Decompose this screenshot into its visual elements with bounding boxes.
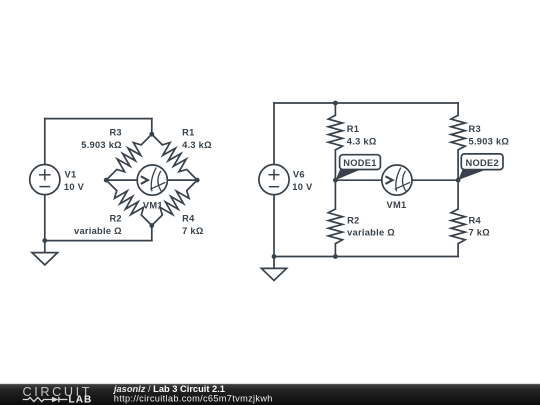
svg-text:NODE2: NODE2 — [466, 158, 499, 168]
wire right branch R3 to NODE2 — [457, 150, 459, 209]
wire left branch R1 to NODE1 — [334, 150, 336, 209]
node dot bridge bottom — [149, 223, 154, 228]
wire bottom rail (left circuit) — [45, 240, 152, 242]
svg-text:R1: R1 — [347, 124, 359, 134]
wire V1 top to top rail — [44, 119, 46, 165]
resistor R1 (right circuit) — [328, 115, 342, 150]
svg-text:R4: R4 — [182, 214, 195, 224]
svg-text:variable Ω: variable Ω — [347, 228, 395, 238]
node dot bridge right — [195, 178, 200, 183]
node dot V1 ground junction — [42, 238, 47, 243]
resistor R4 (left bridge bottom-right arm) — [152, 180, 197, 225]
node dot bottom rail junction — [333, 254, 338, 259]
svg-text:R2: R2 — [109, 214, 121, 224]
svg-text:5.903 kΩ: 5.903 kΩ — [81, 140, 122, 150]
node dot NODE1 — [333, 178, 338, 183]
node NODE1 callout — [336, 155, 381, 180]
wire top rail (left circuit) — [45, 118, 152, 120]
wire VM1 horizontal NODE1 to NODE2 — [335, 179, 458, 181]
voltage source V1 — [30, 165, 60, 195]
svg-text:7 kΩ: 7 kΩ — [182, 226, 204, 236]
svg-text:V6: V6 — [293, 170, 305, 180]
resistor R2 (left bridge bottom-left arm) — [106, 180, 152, 225]
svg-text:R2: R2 — [347, 215, 359, 225]
node dot NODE2 — [456, 178, 461, 183]
svg-text:R3: R3 — [109, 128, 121, 138]
wire right branch R4 to bottom rail — [457, 244, 459, 257]
svg-text:VM1: VM1 — [387, 200, 407, 210]
svg-text:7 kΩ: 7 kΩ — [469, 228, 491, 238]
svg-text:4.3 kΩ: 4.3 kΩ — [347, 136, 377, 146]
CircuitLab logo resistor-diode squiggle — [23, 397, 68, 402]
wire left branch R2 to bottom rail — [334, 244, 336, 257]
node NODE2 callout — [458, 154, 503, 180]
svg-text:4.3 kΩ: 4.3 kΩ — [182, 140, 212, 150]
node dot bridge top — [149, 132, 154, 137]
svg-text:5.903 kΩ: 5.903 kΩ — [469, 136, 510, 146]
svg-text:http://circuitlab.com/c65m7tvm: http://circuitlab.com/c65m7tvmzjkwh — [114, 394, 273, 404]
wire top rail (right circuit) — [274, 102, 458, 104]
svg-text:NODE1: NODE1 — [343, 158, 376, 168]
svg-text:10 V: 10 V — [292, 182, 313, 192]
wire V1 bottom to bottom rail — [44, 195, 46, 241]
node dot V6 ground junction — [272, 254, 277, 259]
wire top rail down to bridge top node — [151, 119, 153, 135]
svg-text:R4: R4 — [469, 215, 482, 225]
resistor R4 (right circuit) — [451, 209, 465, 244]
footer bar — [0, 384, 540, 405]
wire bridge bottom node down — [151, 226, 153, 241]
ground (right circuit) — [261, 257, 286, 281]
wire right branch upper lead — [457, 103, 459, 115]
svg-text:LAB: LAB — [69, 394, 93, 405]
svg-text:variable Ω: variable Ω — [74, 226, 122, 236]
svg-text:R1: R1 — [182, 128, 194, 138]
resistor R3 (right circuit) — [451, 115, 465, 150]
ground (left circuit) — [32, 241, 58, 265]
node dot bridge left — [104, 178, 109, 183]
svg-text:jasonlz / Lab 3 Circuit 2.1: jasonlz / Lab 3 Circuit 2.1 — [113, 384, 225, 394]
footer bar top hairline — [0, 382, 540, 385]
resistor R2 (right circuit) — [328, 209, 342, 244]
resistor R1 (left bridge top-right arm) — [152, 134, 197, 180]
wire left branch upper lead — [334, 103, 336, 115]
svg-text:V1: V1 — [65, 170, 77, 180]
wire V6 bottom to bottom rail — [273, 195, 275, 257]
wire VM1 horizontal (left node to right node) — [106, 179, 197, 181]
node dot top rail junction — [333, 101, 338, 106]
svg-text:10 V: 10 V — [64, 182, 85, 192]
resistor R3 (left bridge top-left arm) — [106, 134, 152, 180]
voltmeter VM1 (right circuit) — [382, 165, 412, 195]
voltmeter VM1 (left bridge) — [137, 165, 167, 195]
svg-text:R3: R3 — [469, 124, 481, 134]
voltage source V6 — [259, 165, 289, 195]
wire bottom rail (right circuit) — [274, 256, 458, 258]
svg-text:VM1: VM1 — [143, 200, 163, 210]
wire V6 top to top rail (right circuit) — [273, 103, 275, 164]
